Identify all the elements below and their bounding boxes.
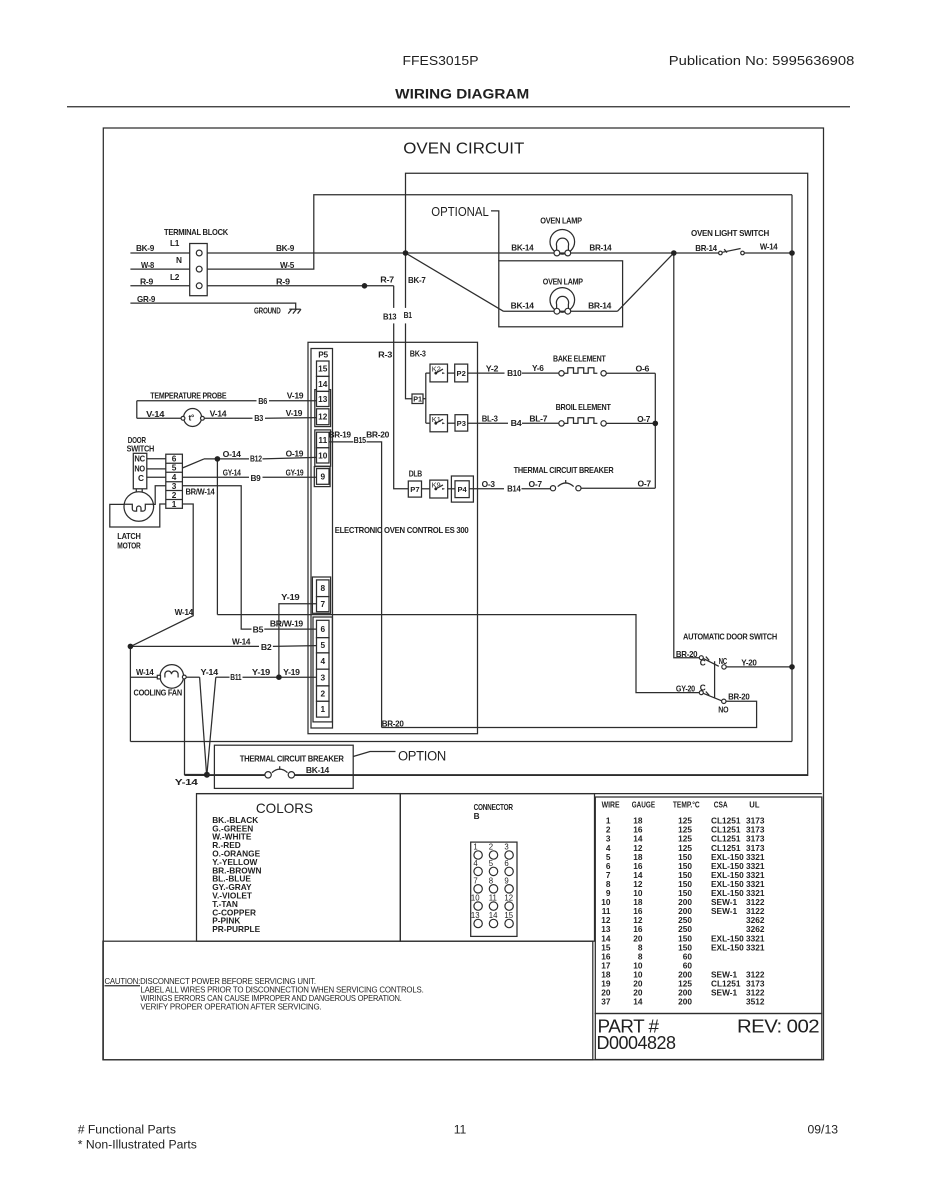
wire W-5 neutral right (207, 195, 792, 269)
svg-text:PR-PURPLE: PR-PURPLE (212, 924, 260, 934)
svg-text:Y-14: Y-14 (175, 777, 199, 787)
svg-text:COLORS: COLORS (256, 800, 313, 816)
svg-text:B15: B15 (354, 435, 367, 445)
temperature probe bulb (181, 409, 204, 427)
svg-text:OVEN CIRCUIT: OVEN CIRCUIT (403, 141, 525, 158)
P5 pin 12 (317, 409, 330, 425)
svg-text:GY-14: GY-14 (223, 467, 242, 477)
svg-text:1: 1 (172, 499, 177, 509)
option callout line (353, 752, 395, 757)
wire K1 to P3 (448, 422, 456, 424)
svg-text:B2: B2 (261, 642, 272, 652)
junction lamp2 merge (671, 250, 677, 256)
svg-text:BR-14: BR-14 (695, 243, 717, 253)
wire W-14 B2 to pin5 (130, 645, 259, 647)
svg-text:OVEN LAMP: OVEN LAMP (543, 276, 584, 286)
svg-text:Y-19: Y-19 (283, 667, 300, 677)
svg-text:GR-9: GR-9 (137, 294, 156, 304)
wire P2 to bake element (468, 372, 505, 374)
svg-text:Y-6: Y-6 (532, 363, 544, 373)
svg-text:B13: B13 (383, 312, 397, 322)
svg-text:7: 7 (473, 876, 477, 885)
wire door pin1 loop to motor (110, 504, 166, 527)
svg-text:Y-19: Y-19 (281, 592, 300, 602)
relay K9 (430, 480, 448, 498)
svg-text:BL-7: BL-7 (529, 414, 547, 424)
svg-text:CONNECTOR: CONNECTOR (474, 802, 513, 812)
caution text (105, 976, 424, 1011)
P5 pin 3 (317, 669, 330, 686)
wire O-14 / O-19 to pin 10 (204, 458, 249, 460)
svg-text:Y-20: Y-20 (741, 658, 757, 668)
svg-text:L2: L2 (170, 272, 180, 282)
svg-text:NO: NO (718, 705, 729, 715)
wire table rows (601, 816, 765, 1007)
wire BR-20 riser to pin 11 (367, 442, 382, 728)
wire neutral left riser to fan row (129, 647, 131, 742)
svg-text:8: 8 (320, 583, 325, 593)
svg-text:BR-14: BR-14 (589, 242, 612, 252)
wire R-3 drop to DLB (394, 342, 409, 489)
svg-text:ELECTRONIC OVEN CONTROL ES 300: ELECTRONIC OVEN CONTROL ES 300 (335, 525, 469, 535)
svg-text:10: 10 (318, 450, 328, 460)
connector B pin numbers (471, 843, 514, 921)
wire breaker to right bus (581, 487, 655, 489)
svg-text:V-14: V-14 (146, 409, 165, 419)
svg-text:B11: B11 (230, 672, 242, 682)
P5 pin 4 (317, 653, 330, 669)
svg-text:OPTION: OPTION (398, 748, 446, 763)
relay K1 (430, 415, 448, 432)
wire R-9 / R-7 right (207, 285, 394, 287)
svg-text:W-14: W-14 (136, 667, 154, 677)
svg-text:LATCH: LATCH (117, 531, 141, 541)
svg-text:3512: 3512 (746, 997, 765, 1007)
svg-text:OPTIONAL: OPTIONAL (431, 204, 489, 219)
wire BR/W-19 to pin6 (264, 628, 316, 630)
relay K2 (430, 364, 448, 382)
P5 pin 1 (317, 701, 330, 717)
color list (212, 815, 261, 934)
wire GY-20 run to auto door switch (217, 615, 699, 693)
caution underline (105, 985, 141, 987)
svg-text:BR/W-19: BR/W-19 (270, 618, 304, 628)
wire B1 drop lower (405, 323, 407, 342)
temperature probe bottom wire B3 (137, 417, 181, 419)
svg-text:BR-20: BR-20 (676, 649, 698, 659)
svg-text:B10: B10 (507, 368, 522, 378)
wire BK-7 drop upper (405, 253, 407, 308)
junction W-14 left (128, 644, 134, 650)
svg-text:COOLING FAN: COOLING FAN (134, 687, 183, 697)
P5 connector strip (311, 349, 333, 729)
wire BR-20 from NO contact (382, 701, 757, 727)
wire fan row W-14 (130, 676, 157, 678)
wire Y-19 pin7 riser (279, 604, 317, 677)
svg-text:FFES3015P: FFES3015P (403, 54, 479, 68)
terminal block (190, 244, 208, 296)
connector B grid box (471, 842, 517, 936)
svg-text:8: 8 (489, 876, 493, 885)
wire P4 to thermal breaker (469, 488, 504, 490)
svg-text:13: 13 (318, 394, 328, 404)
svg-text:2: 2 (320, 689, 325, 699)
svg-text:THERMAL CIRCUIT BREAKER: THERMAL CIRCUIT BREAKER (240, 753, 344, 763)
svg-text:TERMINAL BLOCK: TERMINAL BLOCK (164, 227, 228, 237)
P5 pin 11 (317, 432, 330, 448)
terminal L1 (196, 250, 202, 256)
svg-text:NO: NO (134, 463, 145, 473)
svg-text:TEMP.°C: TEMP.°C (673, 799, 700, 809)
svg-text:11: 11 (489, 894, 497, 903)
P5 pin 10 (317, 448, 330, 463)
wire K3 to P4 (448, 488, 455, 490)
svg-text:BK-3: BK-3 (410, 348, 426, 358)
P5 pin 6 (317, 620, 330, 637)
svg-text:BK-14: BK-14 (306, 765, 330, 775)
svg-text:9: 9 (504, 876, 508, 885)
svg-text:P5: P5 (318, 349, 328, 359)
svg-text:O-14: O-14 (223, 449, 242, 459)
svg-text:B6: B6 (258, 396, 267, 406)
svg-text:W-14: W-14 (175, 607, 194, 617)
svg-text:09/13: 09/13 (808, 1123, 839, 1137)
option breaker contacts (265, 766, 295, 778)
P5 pin 8 (317, 580, 330, 597)
junction O-14 (215, 456, 221, 462)
door switch plug ticks (135, 489, 137, 492)
svg-text:BR/W-14: BR/W-14 (186, 487, 216, 497)
latch motor (124, 492, 154, 522)
svg-text:BR-20: BR-20 (366, 430, 390, 440)
svg-text:OVEN LIGHT SWITCH: OVEN LIGHT SWITCH (691, 228, 769, 238)
svg-text:MOTOR: MOTOR (117, 541, 141, 551)
optional lamp box (499, 261, 623, 327)
svg-text:C: C (700, 658, 706, 668)
wire fan drop slant left (200, 677, 207, 774)
svg-text:BR-19: BR-19 (329, 430, 352, 440)
svg-text:GY-19: GY-19 (286, 467, 304, 477)
page border (103, 128, 823, 1060)
svg-text:6: 6 (504, 859, 508, 868)
wire BK-3 drop to P1 (406, 342, 413, 398)
option breaker wire right (295, 774, 808, 776)
wire broil to right bus (606, 422, 655, 424)
svg-text:SEW-1: SEW-1 (711, 906, 737, 916)
svg-text:BK-9: BK-9 (276, 243, 295, 253)
svg-text:4: 4 (473, 859, 478, 868)
wire GY-14 / GY-19 to pin 9 (182, 476, 249, 478)
svg-text:C: C (700, 683, 706, 693)
wire lamp2 row (504, 310, 618, 312)
svg-text:BK-14: BK-14 (511, 301, 535, 311)
junction Y-20 neutral (789, 664, 795, 670)
svg-text:GAUGE: GAUGE (632, 799, 656, 809)
wire motor to door pin3 (154, 486, 166, 505)
svg-text:O-7: O-7 (637, 414, 651, 424)
svg-text:200: 200 (678, 997, 692, 1007)
svg-text:NC: NC (719, 656, 728, 666)
svg-text:Publication No: 5995636908: Publication No: 5995636908 (669, 54, 855, 68)
svg-text:V-14: V-14 (210, 409, 227, 419)
svg-text:SEW-1: SEW-1 (711, 988, 737, 998)
element right bus (654, 373, 656, 488)
svg-text:11: 11 (318, 435, 327, 445)
svg-text:5: 5 (489, 859, 494, 868)
svg-text:15: 15 (504, 911, 513, 920)
P5 pin 2 (317, 686, 330, 701)
wire BK top loop to option breaker (295, 173, 808, 775)
wire NC to pin6 (147, 458, 166, 460)
svg-text:P3: P3 (457, 419, 466, 428)
svg-text:# Functional Parts: # Functional Parts (78, 1123, 176, 1137)
wire C to pin4 (147, 476, 166, 478)
svg-text:BROIL ELEMENT: BROIL ELEMENT (556, 402, 611, 412)
door switch box (133, 453, 147, 489)
wire W neutral left (130, 268, 189, 270)
wire fan right lead (186, 676, 199, 678)
wire P3 to broil element (468, 422, 508, 424)
wire table header (602, 799, 760, 809)
svg-text:37: 37 (601, 997, 611, 1007)
oven lamp 1 (550, 230, 575, 256)
wire K2 to P2 (448, 372, 455, 374)
wire P7 to K3 (422, 488, 435, 490)
wire BR-19 stub at pin 11 (329, 441, 353, 443)
svg-text:* Non-Illustrated Parts: * Non-Illustrated Parts (78, 1138, 197, 1152)
svg-text:Y-14: Y-14 (201, 667, 219, 677)
wire Y-19 slant right (207, 677, 216, 774)
svg-text:VERIFY PROPER OPERATION AFTER: VERIFY PROPER OPERATION AFTER SERVICING. (140, 1001, 321, 1011)
svg-text:D0004828: D0004828 (597, 1033, 676, 1053)
P7 box (408, 481, 421, 497)
svg-text:3: 3 (504, 843, 508, 852)
colors box (197, 794, 401, 942)
temperature probe left drop (136, 401, 138, 419)
junction R-7 (362, 283, 368, 289)
terminal L2 (196, 283, 202, 289)
bake element (559, 368, 607, 376)
svg-text:GROUND: GROUND (254, 305, 281, 315)
svg-text:SWITCH: SWITCH (127, 444, 155, 454)
svg-text:GY-20: GY-20 (676, 684, 696, 694)
svg-text:W-14: W-14 (760, 241, 778, 251)
svg-text:B12: B12 (250, 454, 262, 464)
P5 pin 5 (317, 638, 330, 653)
wire option breaker left lead (185, 774, 265, 776)
svg-text:P4: P4 (457, 485, 467, 494)
svg-text:TEMPERATURE PROBE: TEMPERATURE PROBE (150, 391, 227, 401)
P1 box (412, 394, 423, 404)
wire O-14 drop (216, 459, 218, 615)
svg-text:W-5: W-5 (280, 260, 295, 270)
svg-text:V-19: V-19 (287, 391, 304, 401)
svg-text:P1: P1 (413, 394, 422, 403)
broil element (559, 418, 607, 426)
svg-text:R-3: R-3 (378, 349, 393, 359)
thermal circuit breaker upper (550, 480, 581, 491)
auto door switch lower (699, 691, 726, 704)
svg-text:AUTOMATIC DOOR SWITCH: AUTOMATIC DOOR SWITCH (683, 631, 777, 641)
P5 group outlines (312, 390, 332, 722)
svg-text:L1: L1 (170, 238, 180, 248)
svg-text:4: 4 (320, 656, 325, 666)
svg-text:11: 11 (454, 1123, 467, 1137)
wire W-14 from light switch to neutral riser (744, 252, 792, 254)
oven light switch (719, 249, 745, 255)
svg-text:BK-14: BK-14 (511, 242, 534, 252)
svg-text:W-14: W-14 (232, 637, 251, 647)
svg-text:12: 12 (318, 412, 328, 422)
svg-text:WIRE: WIRE (602, 799, 620, 809)
svg-text:7: 7 (320, 599, 325, 609)
cooling fan (157, 665, 186, 689)
option thermal breaker box (214, 745, 353, 788)
svg-text:R-9: R-9 (140, 276, 154, 286)
svg-text:R-7: R-7 (380, 274, 394, 284)
svg-text:9: 9 (320, 471, 325, 481)
junction broil bus (653, 421, 659, 427)
svg-text:BR-20: BR-20 (728, 692, 750, 702)
P5 pin 14 (317, 376, 330, 391)
svg-text:NC: NC (134, 454, 145, 464)
svg-text:B1: B1 (404, 310, 413, 320)
svg-text:Y-2: Y-2 (486, 363, 499, 373)
wire BR drop to auto door switch (674, 253, 700, 658)
svg-text:CSA: CSA (714, 799, 728, 809)
header rule (67, 106, 850, 108)
wire BK L1 feed left (130, 252, 189, 254)
wire table box (595, 797, 822, 1014)
svg-text:DLB: DLB (409, 469, 423, 479)
svg-text:C: C (138, 473, 144, 483)
svg-text:P2: P2 (457, 369, 466, 378)
svg-text:B14: B14 (507, 484, 521, 494)
svg-text:BL-3: BL-3 (482, 414, 499, 424)
P3 box (455, 415, 468, 431)
svg-text:14: 14 (489, 911, 498, 920)
wire Y-19 B11 to pin3 (216, 676, 230, 678)
svg-text:Y-19: Y-19 (252, 667, 271, 677)
svg-text:6: 6 (320, 624, 325, 634)
svg-text:R-9: R-9 (276, 276, 290, 286)
wire B13 drop upper (393, 286, 395, 308)
svg-text:3321: 3321 (746, 942, 765, 952)
P5 pin 7 (317, 597, 330, 612)
wire neutral bottom run (130, 741, 792, 743)
terminal N (196, 266, 202, 272)
svg-text:O-3: O-3 (482, 479, 496, 489)
svg-text:W-8: W-8 (141, 260, 155, 270)
connector box (400, 794, 594, 942)
svg-text:REV: 002: REV: 002 (737, 1017, 820, 1037)
P5 pin 9 (317, 469, 330, 485)
door connector column (166, 454, 183, 509)
switch linkage (714, 661, 716, 698)
svg-text:B4: B4 (511, 418, 522, 428)
svg-text:N: N (176, 255, 182, 265)
P5 pin 15 (317, 361, 330, 376)
wire fan terminal drop (185, 679, 207, 775)
svg-text:3: 3 (320, 672, 325, 682)
svg-text:V-19: V-19 (286, 408, 303, 418)
svg-text:BK-7: BK-7 (408, 275, 426, 285)
svg-text:15: 15 (318, 364, 328, 374)
junction BK lamp feed (403, 250, 409, 256)
wire diagonal pin5 to O-14 (182, 459, 204, 468)
wire BR/W-14 from door pin3 (182, 486, 251, 629)
svg-text:B: B (474, 811, 480, 821)
option breaker wire left (207, 774, 265, 776)
wire diagonal lamp2 to junction (617, 253, 673, 311)
connector B pins (474, 851, 513, 928)
electronic oven control box (308, 342, 478, 733)
svg-text:EXL-150: EXL-150 (711, 942, 744, 952)
svg-text:UL: UL (749, 799, 759, 809)
P5 pin 13 (317, 391, 330, 406)
svg-text:WIRING DIAGRAM: WIRING DIAGRAM (395, 87, 529, 102)
svg-text:BR-20: BR-20 (382, 719, 405, 729)
svg-text:14: 14 (318, 379, 328, 389)
svg-text:1: 1 (473, 843, 477, 852)
svg-text:1: 1 (320, 704, 325, 714)
bottom panel top line (197, 793, 822, 795)
junction Y-19 (276, 674, 282, 680)
svg-text:12: 12 (504, 894, 513, 903)
svg-text:5: 5 (320, 640, 325, 650)
svg-text:2: 2 (489, 843, 493, 852)
svg-text:O-19: O-19 (286, 449, 304, 459)
wire door pin1 right drop (130, 504, 193, 647)
P2 box (455, 364, 468, 382)
oven lamp 2 (550, 288, 575, 315)
svg-text:t°: t° (189, 413, 194, 423)
svg-text:BK-9: BK-9 (136, 243, 155, 253)
svg-text:13: 13 (471, 911, 480, 920)
part number box (595, 1014, 822, 1060)
wire P1 to relays (423, 398, 426, 400)
svg-text:OVEN LAMP: OVEN LAMP (540, 216, 582, 226)
optional callout line (491, 211, 499, 261)
wire BK L1 feed right to lamp circuit (207, 252, 718, 254)
svg-text:BR-14: BR-14 (588, 301, 612, 311)
svg-text:14: 14 (633, 997, 643, 1007)
wire GR ground lead (130, 303, 295, 309)
wire bake to right bus (606, 372, 655, 374)
caution box (103, 941, 593, 1060)
svg-text:P7: P7 (410, 485, 419, 494)
ground symbol (288, 309, 301, 313)
wire diagonal BK-7 to lamp2 (406, 253, 504, 311)
wire NO to pin5 (147, 468, 166, 470)
wire B13 drop lower (393, 323, 395, 342)
P4 box double border (451, 476, 473, 502)
wire neutral riser right side (791, 195, 793, 742)
wire R L2 feed left (130, 285, 189, 287)
svg-text:O-6: O-6 (636, 364, 650, 374)
auto door switch upper (699, 656, 726, 669)
svg-text:B9: B9 (251, 473, 262, 483)
wire Y-20 from NC contact (726, 666, 792, 668)
svg-text:O-7: O-7 (638, 479, 652, 489)
svg-text:THERMAL CIRCUIT BREAKER: THERMAL CIRCUIT BREAKER (514, 465, 614, 475)
svg-text:B3: B3 (254, 413, 263, 423)
svg-text:BAKE ELEMENT: BAKE ELEMENT (553, 354, 606, 364)
svg-text:10: 10 (471, 894, 480, 903)
junction neutral light switch (789, 250, 795, 256)
svg-text:O-7: O-7 (529, 479, 543, 489)
temperature probe top wire B6 (137, 400, 257, 402)
